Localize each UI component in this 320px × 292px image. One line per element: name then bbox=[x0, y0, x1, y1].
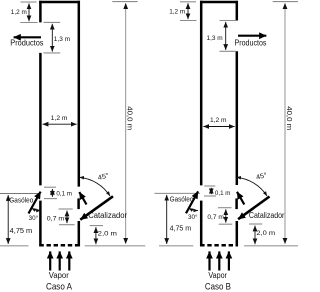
svg-text:Catalizador: Catalizador bbox=[88, 211, 127, 220]
svg-text:1,2 m: 1,2 m bbox=[11, 9, 27, 16]
productos outlet arrow Caso B bbox=[235, 36, 267, 48]
dimension 1,2 m vertical Caso A bbox=[11, 2, 38, 23]
riser Caso A left wall lower segment bbox=[39, 201, 42, 247]
svg-text:Vapor: Vapor bbox=[49, 271, 69, 280]
dimension 0,1 m Caso A bbox=[44, 187, 72, 198]
svg-text:Caso A: Caso A bbox=[46, 282, 73, 292]
svg-text:Gasóleo: Gasóleo bbox=[9, 196, 33, 205]
dimension 1,2 m vertical Caso B bbox=[169, 2, 196, 21]
svg-text:40,0 m: 40,0 m bbox=[126, 106, 135, 130]
gasoleo feed arrow Caso B (30 deg) bbox=[155, 191, 201, 213]
riser Caso A left wall middle segment bbox=[39, 53, 42, 186]
dimension 1,3 m outlet opening Caso A bbox=[44, 22, 71, 53]
right gasoil jet arrow Caso B bbox=[237, 192, 244, 205]
45 deg angle arc Caso A bbox=[79, 171, 110, 196]
svg-text:2,0 m: 2,0 m bbox=[98, 230, 118, 237]
riser Caso B right wall upper segment (1,2 m) bbox=[236, 1, 239, 21]
dimension 1,2 m riser width Caso B bbox=[203, 117, 234, 127]
riser Caso A bottom dashed distributor bbox=[39, 244, 80, 247]
riser Caso B left wall upper segment bbox=[200, 1, 203, 186]
svg-text:0,7 m: 0,7 m bbox=[47, 215, 65, 222]
dimension 1,2 m riser width Caso A bbox=[43, 115, 77, 124]
svg-text:1,2 m: 1,2 m bbox=[169, 8, 185, 15]
dimension 0,1 m Caso B bbox=[204, 186, 231, 197]
dimension 2,0 m Caso A bbox=[90, 226, 118, 245]
svg-text:0,7 m: 0,7 m bbox=[207, 214, 224, 221]
svg-text:0,1 m: 0,1 m bbox=[215, 190, 231, 197]
svg-text:1,2 m: 1,2 m bbox=[51, 115, 68, 122]
svg-text:30°: 30° bbox=[188, 213, 198, 221]
riser Caso B bottom dashed distributor bbox=[200, 244, 238, 247]
svg-text:40,0 m: 40,0 m bbox=[285, 106, 294, 130]
riser Caso A right wall middle segment bbox=[77, 198, 80, 209]
svg-text:Productos: Productos bbox=[10, 38, 43, 47]
riser Caso A top plate bbox=[39, 1, 80, 4]
svg-text:Catalizador: Catalizador bbox=[249, 211, 285, 220]
svg-text:0,1 m: 0,1 m bbox=[56, 191, 72, 198]
catalizador standpipe arrow Caso A (45 deg) bbox=[80, 196, 127, 220]
svg-text:1,3 m: 1,3 m bbox=[54, 36, 71, 43]
vapor inlet arrows Caso B bbox=[208, 251, 229, 279]
riser Caso B right wall inter segment bbox=[235, 198, 238, 209]
svg-text:1,2 m: 1,2 m bbox=[210, 117, 227, 124]
svg-text:30°: 30° bbox=[29, 214, 39, 222]
dimension 4,75 m Caso B bbox=[159, 195, 193, 246]
riser Caso B right wall middle segment bbox=[236, 51, 239, 185]
45 deg angle arc Caso B bbox=[236, 171, 268, 196]
riser Caso B top plate bbox=[200, 1, 238, 4]
svg-text:2,0 m: 2,0 m bbox=[256, 230, 275, 237]
svg-text:Gasóleo: Gasóleo bbox=[170, 194, 194, 203]
riser Caso B left wall lower segment bbox=[200, 201, 203, 247]
svg-text:1,3 m: 1,3 m bbox=[207, 35, 224, 42]
dimension 2,0 m Caso B bbox=[249, 224, 275, 244]
dimension 40,0 m Caso B bbox=[244, 2, 298, 246]
dimension 4,75 m Caso A bbox=[0, 195, 32, 246]
dimension 1,3 m outlet opening Caso B bbox=[207, 21, 237, 52]
svg-text:Vapor: Vapor bbox=[208, 271, 227, 280]
dimension 0,7 m Caso A bbox=[47, 209, 75, 225]
dimension 40,0 m Caso A bbox=[85, 2, 146, 246]
svg-text:4,75 m: 4,75 m bbox=[10, 226, 33, 235]
catalizador standpipe arrow Caso B (45 deg) bbox=[238, 197, 285, 220]
vapor inlet arrows Caso A bbox=[49, 251, 70, 279]
riser Caso A left wall upper segment (1,2 m) bbox=[39, 1, 42, 23]
svg-text:Productos: Productos bbox=[235, 38, 267, 47]
svg-text:Caso B: Caso B bbox=[205, 282, 231, 292]
riser Caso A right wall upper segment bbox=[78, 1, 81, 187]
dimension 0,7 m Caso B bbox=[207, 208, 232, 225]
svg-text:4,75 m: 4,75 m bbox=[170, 224, 192, 233]
gasoleo feed arrow Caso A (30 deg) bbox=[0, 192, 41, 214]
riser Caso B right wall lower segment bbox=[236, 221, 239, 246]
30 deg angle arc Caso B bbox=[188, 208, 198, 221]
productos outlet arrow Caso A bbox=[10, 37, 43, 47]
30 deg angle arc Caso A bbox=[29, 208, 41, 222]
riser Caso A right wall lower segment bbox=[78, 221, 81, 246]
right gasoil jet arrow Caso A bbox=[79, 192, 86, 204]
